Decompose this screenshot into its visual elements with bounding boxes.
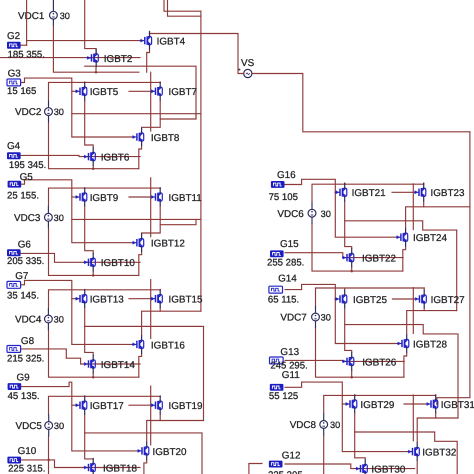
wire: [84, 187, 86, 189]
wire: [312, 224, 403, 271]
svg-text:IGBT31: IGBT31: [441, 400, 474, 411]
svg-text:30: 30: [321, 209, 331, 219]
wire: [21, 155, 141, 156]
wire: [335, 299, 397, 344]
gating block G9: [8, 373, 40, 403]
wire: [354, 394, 356, 397]
wire: [72, 90, 75, 92]
transistor IGBT27: [415, 290, 465, 309]
wire: [85, 325, 204, 327]
svg-text:G3: G3: [8, 68, 22, 79]
transistor IGBT8: [132, 128, 180, 147]
svg-text:IGBT29: IGBT29: [360, 400, 395, 411]
gating block G7: [7, 271, 39, 302]
transistor IGBT11: [151, 188, 203, 207]
node chain bus right: [456, 230, 458, 311]
transistor IGBT17: [75, 396, 124, 415]
svg-text:G5: G5: [20, 172, 34, 183]
wire: [345, 221, 352, 249]
wire: [406, 202, 424, 228]
wire: [72, 113, 201, 115]
wire: [92, 373, 94, 377]
svg-text:IGBT4: IGBT4: [157, 37, 186, 48]
transistor IGBT15: [151, 289, 204, 308]
wire: [423, 288, 425, 290]
wire: [404, 353, 407, 377]
svg-text:IGBT18: IGBT18: [103, 463, 138, 474]
wire: [164, 0, 201, 11]
transistor IGBT16: [132, 335, 186, 354]
dc source VDC8: [290, 413, 341, 435]
transistor IGBT12: [132, 233, 185, 252]
transistor IGBT20: [137, 442, 187, 461]
transistor IGBT32: [408, 442, 457, 461]
wire: [160, 420, 203, 422]
wire: [238, 69, 244, 73]
wire: [84, 395, 86, 397]
wire: [49, 437, 144, 474]
svg-text:G12: G12: [282, 451, 301, 462]
wire: [85, 308, 201, 326]
wire: [403, 247, 406, 272]
svg-text:IGBT14: IGBT14: [101, 360, 136, 371]
transistor IGBT6: [84, 147, 130, 166]
wire: [129, 404, 151, 406]
svg-text:75 105: 75 105: [269, 192, 298, 203]
wire: [342, 404, 407, 452]
wire: [285, 179, 335, 192]
transistor IGBT28: [397, 334, 448, 353]
svg-text:IGBT13: IGBT13: [90, 295, 125, 306]
transistor IGBT31: [426, 395, 474, 414]
svg-text:VDC6: VDC6: [277, 209, 304, 220]
svg-text:IGBT16: IGBT16: [151, 340, 186, 351]
svg-text:IGBT6: IGBT6: [101, 153, 130, 164]
svg-text:IGBT2: IGBT2: [104, 54, 133, 65]
svg-text:185 355.: 185 355.: [8, 49, 45, 60]
wire: [92, 271, 94, 275]
transistor IGBT14: [84, 355, 136, 374]
svg-text:30: 30: [54, 315, 64, 325]
wire: [49, 228, 139, 275]
svg-text:25 155.: 25 155.: [7, 190, 39, 201]
dc source VDC7: [280, 306, 330, 328]
gating block G13: [270, 347, 308, 371]
wire: [72, 218, 201, 220]
wire: [147, 415, 161, 442]
junction: [92, 167, 95, 170]
wire: [21, 78, 132, 137]
wire: [351, 370, 353, 377]
svg-text:IGBT19: IGBT19: [169, 401, 204, 412]
wire: [72, 404, 75, 406]
gating block G15: [267, 239, 304, 269]
wire: [412, 288, 414, 334]
wire: [72, 298, 75, 300]
wire: [21, 253, 141, 262]
svg-text:G2: G2: [7, 31, 20, 42]
svg-text:IGBT12: IGBT12: [151, 239, 185, 250]
wire: [49, 123, 139, 169]
svg-text:VDC1: VDC1: [18, 11, 45, 22]
transistor IGBT22: [342, 248, 396, 267]
svg-text:IGBT24: IGBT24: [413, 233, 448, 244]
wire: [159, 395, 161, 397]
wire: [150, 178, 152, 237]
svg-text:G9: G9: [17, 373, 31, 384]
transistor IGBT4: [140, 31, 186, 50]
gating block G2: [7, 31, 45, 60]
wire: [323, 435, 325, 474]
wire: [95, 68, 97, 73]
wire: [424, 310, 457, 312]
wire: [21, 460, 141, 468]
svg-text:IGBT7: IGBT7: [169, 87, 198, 98]
gating block G12: [268, 451, 305, 474]
wire: [423, 183, 425, 184]
wire: [417, 413, 436, 442]
svg-text:IGBT23: IGBT23: [431, 188, 466, 199]
svg-text:195 345.: 195 345.: [9, 160, 46, 171]
wire: [72, 196, 75, 198]
svg-text:VDC3: VDC3: [14, 213, 41, 224]
wire: [150, 280, 152, 339]
wire: [85, 66, 196, 118]
svg-text:IGBT28: IGBT28: [413, 339, 448, 350]
wire: [285, 284, 335, 299]
wire: [129, 196, 151, 198]
svg-text:205 335.: 205 335.: [7, 256, 44, 267]
transistor IGBT23: [414, 183, 465, 202]
wire: [85, 326, 94, 355]
svg-text:IGBT30: IGBT30: [371, 465, 406, 474]
wire: [285, 464, 415, 469]
svg-text:255 285.: 255 285.: [267, 258, 304, 269]
wire: [316, 328, 404, 377]
wire: [139, 354, 142, 378]
wire: [335, 192, 396, 237]
svg-text:G4: G4: [7, 141, 21, 152]
svg-text:IGBT8: IGBT8: [151, 133, 180, 144]
wire: [344, 183, 346, 184]
wire: [412, 184, 414, 230]
wire: [324, 395, 436, 413]
gating block G11: [269, 370, 300, 402]
svg-text:30: 30: [54, 107, 64, 117]
svg-text:30: 30: [54, 213, 64, 223]
wire: [49, 188, 161, 206]
wire: [344, 288, 346, 290]
svg-text:IGBT21: IGBT21: [352, 188, 387, 199]
transistor IGBT7: [151, 82, 198, 101]
svg-text:VDC2: VDC2: [15, 107, 41, 118]
junction: [95, 71, 98, 74]
wire: [26, 0, 28, 45]
wire: [424, 206, 470, 208]
wire: [355, 432, 366, 460]
wire: [159, 187, 161, 189]
wire: [53, 26, 138, 72]
gating block G4: [7, 141, 46, 171]
wire: [355, 413, 458, 474]
transistor IGBT19: [151, 396, 204, 415]
wire: [168, 0, 201, 16]
wire: [129, 90, 151, 92]
wire: [142, 101, 161, 128]
transistor IGBT21: [335, 183, 386, 202]
wire: [160, 310, 201, 312]
svg-text:IGBT5: IGBT5: [90, 87, 119, 98]
svg-text:IGBT22: IGBT22: [362, 254, 396, 265]
svg-text:45 135.: 45 135.: [8, 391, 40, 402]
wire: [160, 219, 196, 224]
node chain bus left: [200, 11, 202, 311]
svg-text:15 165: 15 165: [7, 86, 36, 97]
junction: [350, 270, 353, 273]
svg-text:IGBT11: IGBT11: [169, 193, 203, 204]
dc source VDC2: [15, 101, 64, 123]
junction: [92, 274, 95, 277]
wire: [150, 31, 239, 69]
voltage sensor VS: [239, 58, 255, 78]
gating block G14: [268, 274, 299, 306]
svg-text:VDC5: VDC5: [16, 421, 43, 432]
wire: [49, 82, 161, 100]
gating block G6: [7, 239, 44, 267]
wire: [393, 298, 415, 300]
wire: [249, 464, 262, 474]
wire: [345, 308, 457, 334]
svg-text:G13: G13: [280, 347, 299, 358]
wire: [49, 330, 139, 377]
transistor IGBT2: [87, 49, 133, 68]
svg-text:IGBT9: IGBT9: [90, 193, 119, 204]
svg-text:IGBT10: IGBT10: [101, 258, 136, 269]
gating block G16: [269, 170, 298, 203]
transistor IGBT5: [75, 82, 119, 101]
node chain bus left lower: [203, 326, 205, 420]
wire: [252, 74, 470, 132]
dc source VDC1: [18, 4, 70, 26]
wire: [285, 382, 345, 404]
gating block G5: [7, 172, 39, 201]
svg-text:IGBT26: IGBT26: [362, 357, 397, 368]
wire VS return right edge: [437, 132, 470, 405]
dc source VDC3: [14, 206, 64, 228]
junction: [47, 459, 50, 462]
wire: [21, 44, 27, 46]
wire: [285, 360, 404, 361]
wire: [435, 394, 437, 397]
svg-text:225 315.: 225 315.: [8, 464, 45, 474]
wire: [416, 461, 418, 474]
svg-text:IGBT17: IGBT17: [90, 401, 124, 412]
node chain bus right lower: [457, 334, 459, 418]
wire: [144, 460, 147, 474]
wire: [85, 433, 94, 459]
dc source VDC4: [15, 308, 64, 330]
transistor IGBT26: [342, 352, 397, 371]
wire: [142, 206, 161, 233]
wire: [392, 191, 414, 193]
transistor IGBT29: [345, 395, 395, 414]
wire: [142, 308, 161, 335]
wire: [150, 72, 152, 131]
transistor IGBT9: [75, 188, 119, 207]
wire: [0, 57, 140, 59]
svg-text:30: 30: [321, 313, 331, 323]
svg-text:VDC4: VDC4: [15, 315, 42, 326]
wire: [92, 166, 94, 169]
wire: [49, 396, 161, 414]
wire: [84, 206, 86, 219]
wire: [147, 50, 150, 72]
svg-text:65 115.: 65 115.: [268, 294, 299, 305]
svg-text:G14: G14: [278, 274, 297, 285]
svg-text:30: 30: [54, 421, 64, 431]
wire: [84, 101, 86, 114]
wire: [21, 280, 132, 344]
wire: [85, 114, 94, 148]
svg-text:VDC8: VDC8: [290, 420, 317, 431]
svg-text:VS: VS: [241, 58, 255, 69]
dc source VDC6: [277, 202, 330, 224]
wire: [436, 417, 458, 419]
wire: [159, 81, 161, 83]
wire: [407, 308, 425, 334]
wire: [404, 403, 426, 405]
wire: [27, 40, 140, 42]
svg-text:VDC7: VDC7: [280, 313, 306, 324]
wire: [285, 253, 403, 258]
transistor IGBT24: [396, 228, 448, 247]
gating block G8: [7, 336, 44, 365]
svg-text:IGBT20: IGBT20: [153, 447, 188, 458]
transistor IGBT18: [84, 458, 138, 474]
svg-text:G8: G8: [21, 336, 35, 347]
wire: [129, 298, 151, 300]
wire: [412, 395, 414, 441]
wire: [159, 288, 161, 290]
wire: [85, 219, 94, 253]
svg-text:G11: G11: [282, 370, 300, 381]
wire: [85, 0, 96, 54]
wire: [345, 202, 457, 231]
svg-text:G10: G10: [18, 446, 37, 457]
svg-text:235 305.: 235 305.: [268, 470, 305, 474]
svg-text:G7: G7: [15, 271, 28, 282]
svg-text:55 125: 55 125: [269, 391, 298, 402]
svg-text:IGBT25: IGBT25: [353, 295, 388, 306]
wire: [49, 290, 161, 308]
wire: [21, 180, 132, 243]
transistor IGBT25: [335, 290, 388, 309]
dc source VDC5: [16, 415, 65, 437]
wire: [160, 114, 196, 119]
svg-text:G16: G16: [277, 170, 296, 181]
wire: [21, 382, 138, 451]
svg-text:IGBT15: IGBT15: [169, 295, 204, 306]
svg-text:215 325.: 215 325.: [7, 354, 44, 365]
svg-text:30: 30: [330, 420, 340, 430]
wire: [84, 288, 86, 290]
wire: [316, 288, 425, 306]
svg-text:35 145.: 35 145.: [7, 291, 39, 302]
wire: [312, 184, 424, 202]
junction: [92, 376, 95, 379]
svg-text:G6: G6: [18, 239, 32, 250]
transistor IGBT13: [75, 289, 124, 308]
gating block G3: [7, 68, 36, 97]
svg-text:30: 30: [60, 11, 70, 21]
wire: [84, 81, 86, 83]
wire: [139, 252, 142, 275]
svg-text:G15: G15: [280, 239, 299, 250]
transistor IGBT10: [84, 253, 136, 272]
wire: [85, 415, 202, 474]
gating block G10: [7, 446, 45, 474]
wire: [139, 146, 142, 168]
wire: [150, 386, 152, 445]
svg-text:IGBT32: IGBT32: [422, 448, 456, 459]
wire: [351, 267, 353, 272]
wire: [52, 0, 54, 4]
wire: [345, 325, 352, 353]
junction: [350, 376, 353, 379]
transistor IGBT30: [356, 459, 406, 474]
svg-text:IGBT27: IGBT27: [431, 295, 465, 306]
wire: [21, 349, 141, 364]
